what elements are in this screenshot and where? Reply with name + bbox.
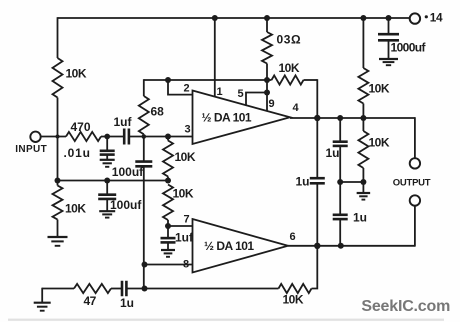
wire pin2 stub (168, 80, 193, 95)
svg-text:OUTPUT: OUTPUT (393, 178, 431, 189)
resistor 10K (lower left) (53, 186, 63, 220)
label 100uf (upper) (112, 165, 144, 179)
node pin4 n3 (360, 115, 366, 121)
wire bias row (58, 180, 169, 182)
label 10K (upper mid) (175, 150, 196, 164)
label 1000uf (391, 41, 427, 55)
svg-text:INPUT: INPUT (15, 144, 47, 155)
label INPUT (15, 144, 47, 155)
node bias row left (55, 178, 61, 184)
label 1u (upper right) (326, 146, 340, 160)
label pin 7 (184, 213, 190, 225)
wire .01u to ground (106, 155, 108, 160)
wire pin3 row (129, 136, 192, 138)
wire left column middle (57, 98, 59, 186)
capacitor 100uf (lower) (98, 181, 116, 199)
wire 1u junction (339, 146, 341, 182)
svg-text:03Ω: 03Ω (277, 33, 302, 47)
terminal +14 (410, 13, 420, 23)
node pin4 n2 (337, 115, 343, 121)
svg-text:3: 3 (185, 124, 191, 136)
wire 10K to ground (362, 182, 364, 193)
capacitor .01u (100, 137, 115, 155)
node pin4 n1 (314, 115, 320, 121)
wire input row to 1uf cap (101, 136, 124, 138)
resistor 47 (74, 284, 111, 293)
terminal OUTPUT lower (410, 195, 420, 205)
svg-text:10K: 10K (283, 293, 304, 307)
label .03 ohm (277, 33, 302, 47)
label 1u (bottom) (120, 296, 134, 310)
node 68/100uf junction (142, 134, 147, 139)
wire left column to ground (57, 220, 59, 238)
capacitor 100uf (upper) (135, 137, 152, 167)
ground (100uf lower) (99, 211, 115, 217)
ground (1uf pin7) (161, 250, 175, 257)
label 10K (bottom) (283, 293, 304, 307)
wire 1uf pin7 to ground (167, 242, 169, 249)
node .03 rail (264, 15, 270, 21)
node 1u/1u junction (337, 179, 343, 185)
node pin1 rail (212, 15, 218, 21)
node 10K right rail (360, 15, 366, 21)
svg-text:100uf: 100uf (112, 165, 144, 179)
wire 100uf column down (143, 166, 145, 288)
wire 68 top corner (143, 79, 145, 96)
wire bottom rail left (42, 288, 74, 290)
node pin7 junction (165, 223, 171, 229)
label 10K (right lower) (369, 136, 390, 150)
svg-text:47: 47 (84, 294, 97, 308)
node pin6 n2 (338, 243, 344, 249)
svg-text:10K: 10K (173, 187, 194, 201)
svg-text:½ DA 101: ½ DA 101 (202, 110, 252, 124)
label 1uf (pin7) (175, 230, 194, 244)
label pin 2 (184, 82, 190, 94)
svg-text:SeekIC.com: SeekIC.com (361, 298, 450, 315)
svg-text:2: 2 (184, 82, 190, 94)
resistor 10K (feedback) (267, 75, 317, 84)
svg-text:1u: 1u (326, 146, 340, 160)
svg-text:1000uf: 1000uf (391, 41, 427, 55)
node 470 output junction (104, 134, 110, 140)
wire bottom rail mid (127, 288, 279, 290)
capacitor 1uf (pin7) (161, 226, 176, 242)
wire pin7 (168, 225, 193, 227)
svg-text:1u: 1u (353, 210, 367, 224)
wire input stub (41, 136, 66, 138)
label 1u (mid) (296, 174, 310, 188)
label 47 (84, 294, 97, 308)
terminal OUTPUT upper (410, 158, 420, 168)
wire top supply rail (58, 17, 410, 19)
node bias row mid (104, 178, 110, 184)
wire pin2 row (144, 79, 267, 81)
wire pin8 (144, 264, 193, 266)
svg-text:10K: 10K (65, 202, 86, 216)
label .01u (64, 146, 91, 160)
ground (bottom left) (34, 303, 51, 311)
label 68 (151, 105, 165, 119)
wire bottom ground riser (41, 288, 43, 303)
node pin6 n1 (314, 243, 320, 249)
wire pin6 row (288, 245, 415, 247)
ground (left 10K) (48, 237, 68, 246)
node bottom rail junction (142, 286, 148, 292)
svg-text:14: 14 (430, 11, 443, 25)
watermark SeekIC.com (361, 298, 450, 315)
svg-text:100uf: 100uf (110, 198, 142, 212)
op-amp U1 half DA101 (193, 91, 291, 145)
ground (right 10K) (357, 193, 371, 200)
svg-text:10K: 10K (66, 67, 87, 81)
label 10K (lower left) (65, 202, 86, 216)
label 470 (71, 120, 91, 134)
capacitor 1uf (series input) (124, 129, 129, 145)
resistor .03 ohm (262, 18, 272, 80)
label 1uf (series input) (114, 115, 133, 129)
resistor 10K (upper mid) (163, 137, 173, 181)
svg-text:10K: 10K (369, 82, 390, 96)
label 10K (feedback) (279, 61, 300, 75)
node 10K ground junction (360, 179, 366, 185)
svg-text:7: 7 (184, 213, 190, 225)
node bias row right (165, 178, 171, 184)
svg-text:9: 9 (269, 98, 275, 110)
svg-text:1u: 1u (120, 296, 134, 310)
svg-text:½ DA 101: ½ DA 101 (204, 239, 254, 253)
wire 47 to 1u (111, 288, 122, 290)
resistor 68 (139, 96, 149, 137)
svg-text:470: 470 (71, 120, 91, 134)
capacitor 1u (mid) (310, 118, 325, 246)
node 1000uf rail (386, 15, 392, 21)
svg-text:1u: 1u (296, 174, 310, 188)
wire output riser upper (414, 117, 416, 158)
scan smudge bottom (8, 319, 444, 321)
node input junction (56, 135, 60, 139)
svg-text:8: 8 (183, 259, 189, 271)
capacitor 1u (upper right) (333, 118, 348, 146)
wire pin1 column (214, 18, 216, 97)
svg-text:10K: 10K (279, 61, 300, 75)
node pin2 row right junction (264, 77, 270, 83)
ground (1000uf) (379, 59, 398, 65)
label pin 9 (269, 98, 275, 110)
resistor 10K (lower mid) (163, 185, 173, 227)
label pin 8 (183, 259, 189, 271)
svg-text:1uf: 1uf (114, 115, 133, 129)
label pin 3 (185, 124, 191, 136)
label 1u (lower right) (353, 210, 367, 224)
terminal INPUT (30, 132, 40, 142)
node pin2 stub junction (165, 77, 171, 83)
resistor 10K (top left) (53, 58, 63, 98)
label 10K (top left) (66, 67, 87, 81)
svg-text:1: 1 (217, 86, 223, 98)
svg-text:10K: 10K (369, 136, 390, 150)
resistor 470 (66, 132, 101, 141)
node pin3 junction (165, 134, 171, 140)
svg-text:1uf: 1uf (175, 230, 194, 244)
ground (.01u) (100, 160, 115, 167)
capacitor 1u (bottom) (122, 281, 126, 297)
wire left column upper (57, 17, 59, 58)
svg-text:68: 68 (151, 105, 165, 119)
svg-text:5: 5 (238, 88, 244, 100)
resistor 10K (bottom) (279, 284, 312, 293)
label pin 5 (238, 88, 244, 100)
label 100uf (lower) (110, 198, 142, 212)
wire output riser lower (414, 206, 416, 247)
wire 100uf lower to ground (106, 199, 108, 211)
label OUTPUT (393, 178, 431, 189)
label pin 4 (293, 102, 300, 114)
op-amp U2 half DA101 (193, 219, 289, 273)
wire feedback corner down (316, 79, 318, 118)
wire bottom rail right riser (312, 246, 318, 289)
node pin5/9 junction (264, 90, 270, 96)
label pin 1 (217, 86, 223, 98)
label +14 (425, 11, 443, 25)
wire pin9 stub (266, 80, 268, 111)
capacitor 1u (lower right) (333, 182, 348, 246)
svg-text:6: 6 (290, 231, 296, 243)
label pin 6 (290, 231, 296, 243)
wire pin4 row (290, 117, 415, 119)
svg-text:4: 4 (293, 102, 300, 114)
label 10K (lower mid) (173, 187, 194, 201)
resistor 10K (right upper) (358, 18, 368, 118)
capacitor 1000uf (378, 18, 399, 59)
node pin8 junction (142, 262, 148, 268)
wire cap junction to 10K ground (340, 181, 363, 183)
svg-text:.01u: .01u (64, 146, 91, 160)
wire pin5 stub (246, 93, 267, 106)
svg-text:10K: 10K (175, 150, 196, 164)
label 10K (right upper) (369, 82, 390, 96)
resistor 10K (right lower) (358, 118, 368, 182)
